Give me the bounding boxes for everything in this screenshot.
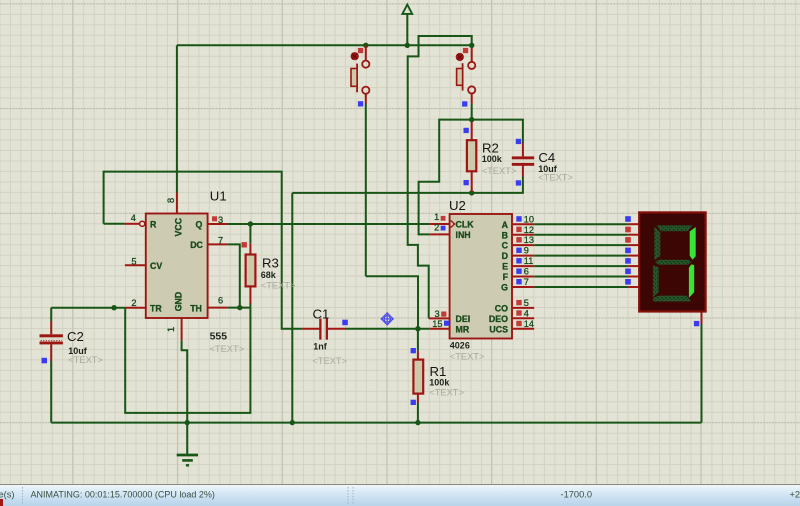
display pin D stub [628,255,639,257]
svg-text:7: 7 [218,235,223,245]
resistor R1 body [413,360,423,394]
svg-text:<TEXT>: <TEXT> [68,355,103,365]
U2 pin1 red marker [441,216,446,221]
segment F (dim) [654,227,660,260]
R1 top blue marker [411,348,416,353]
wire: TR pin2 row from C2 [51,307,125,309]
wire: power arrow to rail [406,14,408,45]
button2 actuator rod [462,63,464,90]
wire: R1 bottom to ground rail [417,403,419,423]
svg-text:1: 1 [434,212,439,222]
display A blue marker [625,216,631,222]
wire: R pin 4 link [104,223,125,225]
R2 bottom lead [471,171,473,192]
C2 bottom lead [50,344,52,361]
button1 bottom stub [365,94,367,104]
svg-text:D: D [502,251,508,261]
wire: VCC to U2 DEI stepped wire (detours over the rail) [408,36,472,318]
svg-text:CLK: CLK [456,220,475,230]
C1 right lead [328,328,346,330]
U2 E left blue marker [516,258,521,263]
wire: R2/C4 ground net vertical to bottom rail [291,193,293,423]
segment E (dim) [653,265,659,298]
wire: button2 junction to U2 INH stepped wire [419,120,472,235]
svg-text:R2: R2 [482,140,499,155]
svg-text:ANIMATING: 00:01:15.700000 (CP: ANIMATING: 00:01:15.700000 (CPU load 2%) [31,490,215,500]
wire: TH pin6 row [227,307,250,309]
svg-text:C2: C2 [67,329,84,344]
svg-text:+2: +2 [790,490,800,500]
svg-text:14: 14 [524,319,534,329]
U2 pin G stub [512,286,534,288]
svg-text:INH: INH [456,230,471,240]
status bar [0,484,800,506]
C1 blue marker [342,320,348,326]
svg-text:6: 6 [218,296,223,306]
svg-text:DEO: DEO [489,314,508,324]
svg-text:100k: 100k [429,378,450,388]
svg-text:Q: Q [196,220,203,230]
svg-text:B: B [502,230,508,240]
power terminal arrow [402,5,412,14]
U1 pin numbers [131,198,223,332]
display pin C stub [628,244,639,246]
U1 pin 7 DC stub [208,243,228,245]
U2 pin A stub [512,223,534,225]
svg-text:555: 555 [210,331,228,343]
svg-text:1: 1 [166,327,176,332]
display E blue marker [625,258,631,264]
svg-text:DC: DC [190,240,203,250]
button2 actuator bracket [457,69,463,86]
svg-text:9: 9 [524,246,529,256]
display pin B stub [628,234,639,236]
wire: U2 A wire to display [534,223,628,225]
svg-text:TR: TR [150,303,162,313]
R1 top lead [417,351,419,360]
U2 pin 3 DEI stub [429,317,450,319]
display C red marker [625,237,631,243]
wire: R3 top from Q row junction [249,224,251,244]
svg-text:<TEXT>: <TEXT> [538,173,573,183]
ground symbol [177,455,198,465]
U2 pin B stub [512,234,534,236]
U2 CO red marker [516,300,521,305]
svg-text:15: 15 [432,319,442,329]
wire: DC pin7 down to TH node [227,244,240,307]
button1 top stub [365,45,367,60]
svg-text:6: 6 [524,267,529,277]
wire: C2 top lead [50,308,52,322]
op-amp U1 555 timer body [146,214,208,319]
U2 UCS red marker [516,321,521,326]
resistor R3 body [246,255,256,287]
R3 bottom lead [249,286,251,303]
push button SW2 [456,53,476,94]
U2 DEO red marker [516,310,521,315]
U2 pin names [456,220,509,335]
wire: VCC top rail [177,44,472,46]
U1 pin 3 Q stub [208,223,228,225]
button1 actuator rod [356,64,358,93]
button1 actuator bracket [351,69,357,87]
segment B (lit) [690,227,696,260]
origin marker (blue crosshair) [381,312,394,325]
U2 C left red marker [516,237,521,242]
junction node: GND / bottom rail [185,420,190,425]
U2 pin 14 UCS stub [512,328,534,330]
display D blue marker [625,248,631,254]
wire: U2 C wire to display [534,244,628,246]
button2 bottom terminal [468,86,475,93]
bottom-left red sliver [0,499,3,506]
svg-text:2: 2 [131,298,136,308]
svg-text:10: 10 [524,214,534,224]
wire: C1 right to MR junction [346,328,430,330]
svg-text:3: 3 [218,215,223,225]
pin stubs U1 (red) [51,45,701,403]
R2 top blue marker [464,128,469,133]
U2 pin15 blue marker [444,321,449,326]
U1 pin 2 TR stub [125,307,146,309]
button2 top stub [471,48,473,62]
svg-text:12: 12 [524,225,534,235]
counter U2 4026 body [450,214,512,339]
wire: U1 GND pin1 to ground rail [182,341,188,455]
U2 pin E stub [512,265,534,267]
svg-text:GND: GND [174,292,184,312]
wire: U2 F wire to display [534,276,628,278]
wire: U1 reset loop (R pin to Q net rectangle) [104,172,303,329]
U2 CLK clock triangle [451,220,455,227]
U2 G left blue marker [516,279,521,284]
U2 A left blue marker [516,216,521,221]
wire: display common pin to ground rail [701,324,703,423]
U1 pin names [150,217,204,313]
svg-text:F: F [503,272,509,282]
wire: ground bottom rail [51,422,701,424]
7-segment display body [639,212,705,311]
U2 pin C stub [512,244,534,246]
display F blue marker [625,269,631,275]
svg-text:<TEXT>: <TEXT> [429,388,464,398]
svg-text:13: 13 [524,235,534,245]
junction node: R2 bottom / C4 bottom [469,190,474,195]
U2 B left red marker [516,227,521,232]
junction node: R2 net / bottom rail [290,420,295,425]
svg-text:5: 5 [131,256,136,266]
U2 pin 2 INH stub [429,233,449,235]
capacitor C4 plates (polarized) [512,156,534,159]
wire: button2 output to junction [471,104,473,120]
junction node: TR row dot [111,305,116,310]
button1 top terminal [362,61,369,68]
U1 pin 1 GND stub [181,318,183,341]
svg-text:68k: 68k [261,270,277,280]
svg-text:TH: TH [190,303,202,313]
C2 top lead [50,321,52,334]
junction node: R1 / bottom rail [415,420,420,425]
svg-text:C1: C1 [313,306,330,321]
button1 bottom terminal [362,87,369,94]
junction node: Q row / R3 [248,221,253,226]
button2 bottom stub [471,94,473,104]
wire: U2 B wire to display [534,234,628,236]
display common blue marker [694,321,699,326]
svg-text:<TEXT>: <TEXT> [261,281,296,291]
svg-text:U2: U2 [449,198,466,213]
display G blue marker [625,279,631,285]
U1 pin 5 CV stub [125,264,146,266]
svg-text:E: E [502,262,508,272]
junction node: button2 output / R2 / C4 [469,117,474,122]
U2 pin2 blue marker [441,226,446,231]
button1 red marker [358,48,363,53]
wire: U2 D wire to display [534,255,628,257]
U1 R pin inversion bubble [140,221,145,226]
U2 pin numbers [432,212,534,329]
svg-text:4: 4 [131,213,136,223]
svg-text:e(s): e(s) [0,490,15,500]
junction node: C1 / MR / R1 [415,326,420,331]
U2 pin 5 CO stub [512,307,534,309]
U2 pin 1 CLK stub [429,223,449,225]
display common pin stub [701,312,703,325]
segment G (dim) [655,260,692,265]
svg-text:1nf: 1nf [313,341,328,351]
segment A (dim) [657,225,693,231]
C4 top blue marker [516,139,521,144]
svg-text:CV: CV [150,261,162,271]
svg-text:R: R [150,220,157,230]
svg-text:VCC: VCC [174,217,184,236]
wire: button1 output down to MR net [365,104,367,277]
svg-text:<TEXT>: <TEXT> [210,344,245,354]
svg-text:7: 7 [524,277,529,287]
R3 red marker [242,242,247,247]
button2 cap [456,53,464,61]
wire: R3 bottom to TH node [249,303,251,308]
wire: U2 G wire to display [534,286,628,288]
R1 bottom lead [417,394,419,403]
button1 blue marker [358,101,363,106]
svg-text:5: 5 [524,298,529,308]
U2 F left blue marker [516,269,521,274]
C4 bottom blue marker [516,180,521,185]
wire: junction to C4 top [472,120,523,143]
svg-text:11: 11 [524,256,534,266]
state marker squares [42,48,700,405]
U2 pin D stub [512,255,534,257]
U1 pin 6 TH stub [208,307,228,309]
display pin E stub [628,265,639,267]
R2 bottom blue marker [464,180,469,185]
U2 pin 15 MR stub [429,328,449,330]
svg-text:2: 2 [434,222,439,232]
wire: C4 bottom to R2 bottom rail [292,177,523,193]
U1 Q red marker [212,216,217,221]
junction node: power arrow / rail [405,43,410,48]
wire: button2 top from rail corner [471,45,473,48]
display pin G stub [628,286,639,288]
svg-text:<TEXT>: <TEXT> [482,166,517,176]
button2 top terminal [468,62,475,69]
svg-text:R3: R3 [262,255,279,270]
U2 pin3 red marker [441,312,446,317]
display pin F stub [628,276,639,278]
junction node: rail corner button2 [469,43,474,48]
C4 top lead [522,143,524,156]
button1 cap [351,52,359,60]
svg-text:C: C [502,241,509,251]
svg-text:MR: MR [456,324,470,334]
U2 pin F stub [512,276,534,278]
svg-text:8: 8 [166,198,176,203]
svg-text:-1700.0: -1700.0 [561,490,593,500]
display B red marker [625,227,631,233]
svg-text:<TEXT>: <TEXT> [450,352,485,362]
svg-text:U1: U1 [210,189,227,204]
resistor R2 body [467,140,476,171]
svg-text:CO: CO [495,304,508,314]
R1 bottom blue marker [411,400,416,405]
U2 pin 4 DEO stub [512,317,534,319]
wire: Q pin3 row to U2 CLK [227,223,429,225]
svg-text:C4: C4 [538,150,555,165]
capacitor C2 plates (polarized) [40,334,63,337]
push button SW1 [351,52,370,94]
C2 blue marker [42,358,48,364]
U2 D left blue marker [516,248,521,253]
svg-text:G: G [501,283,508,293]
wire: TH/TR link down and left [125,308,250,413]
junction node: TH / DC / R3 [237,305,242,310]
wire: C2 bottom lead to ground rail [50,361,52,423]
capacitor C1 plates [319,319,321,340]
segment C (lit) [689,264,694,297]
svg-text:<TEXT>: <TEXT> [312,356,347,366]
button2 blue marker [462,101,467,106]
svg-text:100k: 100k [482,154,503,164]
svg-text:3: 3 [434,309,439,319]
R2 top lead [471,122,473,140]
wire: U2 E wire to display [534,265,628,267]
R3 top lead [249,244,251,255]
U1 pin 4 R stub [125,223,140,225]
wire: R1 top from MR junction [417,329,419,351]
svg-text:DEI: DEI [456,314,471,324]
U1 pin 8 VCC stub [176,193,178,214]
display pin A stub [628,223,639,225]
svg-text:4026: 4026 [450,341,470,351]
svg-text:4: 4 [524,308,529,318]
wire: U1 VCC pin 8 drop from rail [176,45,178,192]
svg-text:UCS: UCS [489,324,508,334]
button2 red marker [463,48,468,53]
C4 bottom lead [522,165,524,176]
junction node: button1 / rail [363,43,368,48]
svg-text:A: A [502,220,509,230]
segment D (dim) [653,296,691,302]
C1 left lead [302,328,319,330]
